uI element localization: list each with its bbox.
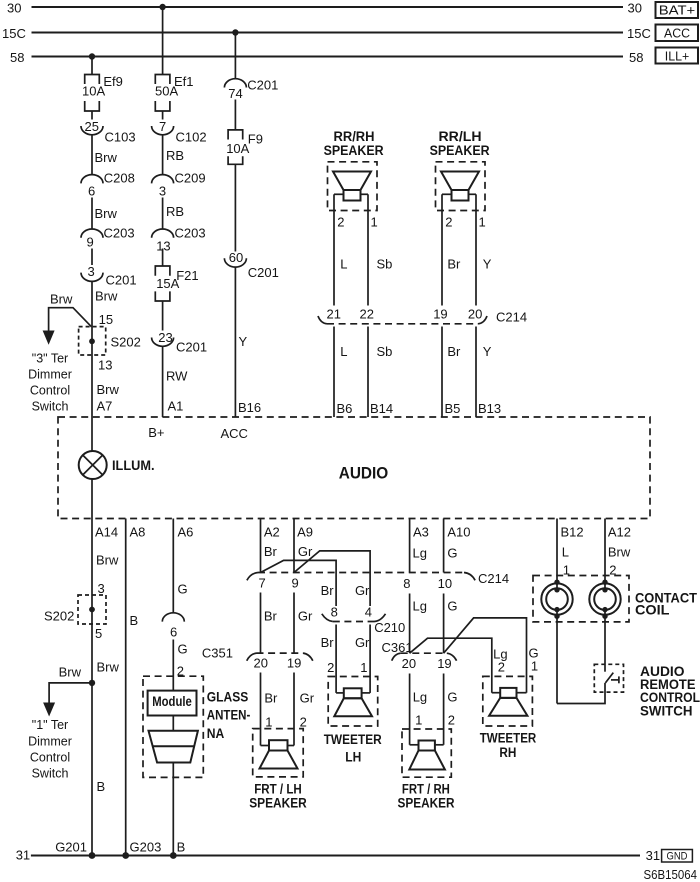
svg-text:A1: A1 (168, 399, 184, 414)
wire C361 pin 20 branch to tweeter RH pin 2 (Lg) (410, 638, 492, 693)
svg-text:Gr: Gr (355, 635, 370, 650)
wire F9 to C201 (234, 164, 236, 251)
terminal box GND (662, 850, 693, 863)
svg-text:SPEAKER: SPEAKER (249, 796, 307, 811)
wire AUDIO A10 to C214 pin 10 (G) (443, 519, 445, 573)
switch contact (611, 679, 619, 681)
svg-text:10A: 10A (82, 84, 105, 99)
wire RR/RH pin 1 to C214 pin 22 (Sb) (367, 194, 369, 305)
svg-text:8: 8 (403, 576, 410, 591)
svg-text:2: 2 (300, 715, 307, 730)
svg-text:1: 1 (415, 713, 422, 728)
wire AUDIO A3 to C214 pin 8 (Lg) (409, 519, 411, 573)
svg-text:4: 4 (365, 605, 372, 620)
svg-text:19: 19 (437, 656, 451, 671)
svg-text:L: L (340, 257, 347, 272)
svg-text:Br: Br (447, 257, 461, 272)
svg-text:RH: RH (499, 745, 516, 760)
svg-text:SWITCH: SWITCH (640, 704, 693, 719)
speaker FRT/RH (402, 729, 451, 777)
svg-text:C214: C214 (478, 571, 509, 586)
wire AUDIO A2 to C214 pin 7 (Br) (260, 519, 262, 573)
svg-text:Lg: Lg (413, 599, 427, 614)
connector C351 (247, 653, 257, 661)
svg-text:Sb: Sb (377, 257, 393, 272)
svg-text:GND: GND (667, 850, 688, 862)
wire C361 pin 19 to FRT/RH pin 2 (G) (443, 674, 445, 745)
svg-text:Brw: Brw (95, 289, 118, 304)
svg-text:G: G (178, 642, 188, 657)
wire C214 pin 7 branch to C210 pin 8 (Br) (261, 560, 337, 606)
connector pin 6 (antenna lead) (162, 613, 184, 622)
svg-text:A10: A10 (447, 525, 470, 540)
wire AUDIO A6 down (G) (172, 519, 174, 614)
arrow to "3" Ter dimmer control switch (43, 331, 55, 345)
svg-text:ACC: ACC (221, 426, 248, 441)
svg-text:10: 10 (438, 576, 452, 591)
svg-text:3: 3 (98, 581, 105, 596)
svg-text:A7: A7 (97, 399, 113, 414)
svg-text:S6B15064: S6B15064 (644, 867, 698, 882)
wire fuse Ef1 to C102 (162, 111, 164, 120)
svg-text:C361: C361 (382, 640, 413, 655)
fuse F21 15A (155, 266, 170, 276)
svg-text:1: 1 (479, 215, 486, 230)
svg-text:G: G (447, 546, 457, 561)
svg-text:8: 8 (331, 605, 338, 620)
svg-text:LH: LH (345, 750, 361, 765)
svg-text:Br: Br (264, 691, 278, 706)
svg-text:Br: Br (321, 583, 335, 598)
svg-text:10A: 10A (226, 141, 249, 156)
svg-text:C203: C203 (104, 226, 135, 241)
svg-text:"1" Ter: "1" Ter (32, 718, 68, 732)
connector C203 pin 13 (152, 229, 174, 238)
terminal box ACC (656, 25, 699, 42)
speaker RR/LH (436, 162, 486, 211)
speaker FRT/LH (253, 729, 304, 777)
svg-text:C201: C201 (247, 78, 278, 93)
wire bus 30 (BAT+) (32, 6, 624, 8)
svg-text:C201: C201 (106, 273, 137, 288)
connector C209 pin 3 (152, 175, 174, 184)
svg-text:SPEAKER: SPEAKER (430, 143, 490, 158)
svg-text:B+: B+ (148, 425, 164, 440)
svg-text:7: 7 (159, 119, 166, 134)
svg-text:2: 2 (337, 215, 344, 230)
svg-text:20: 20 (468, 307, 482, 322)
svg-text:25: 25 (85, 119, 99, 134)
svg-text:C208: C208 (104, 171, 135, 186)
junction G201 on bus 31 (89, 852, 96, 859)
connector C361 (392, 653, 401, 661)
svg-text:B: B (130, 613, 139, 628)
svg-text:31: 31 (16, 848, 30, 863)
wire switch to junction (557, 683, 605, 704)
contact coil ring 1 (541, 583, 572, 614)
svg-text:Brw: Brw (608, 545, 631, 560)
wire 15C to C201 (234, 33, 236, 80)
wire 30 to fuse Ef1 (162, 7, 164, 75)
svg-text:22: 22 (360, 307, 374, 322)
glass antenna box (143, 676, 203, 777)
svg-text:3: 3 (88, 264, 95, 279)
svg-text:B12: B12 (561, 525, 584, 540)
svg-text:Brw: Brw (96, 553, 119, 568)
wire C210 pin 8 to tweeter LH pin 2 (Br) (335, 625, 337, 693)
wire bus 58 (ILL+) (32, 56, 624, 58)
svg-text:TWEETER: TWEETER (324, 732, 382, 747)
svg-text:9: 9 (87, 235, 94, 250)
svg-text:1: 1 (360, 660, 367, 675)
wire C209 to C203 (RB) (162, 198, 164, 230)
svg-text:Brw: Brw (50, 292, 73, 307)
wire C210 pin 4 to tweeter LH pin 1 (Gr) (369, 625, 371, 693)
svg-text:Dimmer: Dimmer (28, 368, 72, 382)
svg-text:Y: Y (483, 257, 492, 272)
svg-text:Lg: Lg (413, 546, 427, 561)
svg-text:A8: A8 (130, 525, 146, 540)
wire C214 pin 19 to AUDIO B5 (Br) (441, 327, 443, 418)
terminal box ILL+ (656, 48, 699, 64)
wire S202 to AUDIO pin A7 (Brw) (91, 327, 93, 417)
svg-text:TWEETER: TWEETER (480, 731, 537, 746)
contact coil ring 2 (589, 583, 620, 614)
svg-text:Brw: Brw (95, 206, 118, 221)
terminal box BAT+ (656, 2, 699, 18)
junction to dimmer branch (89, 680, 95, 686)
svg-text:Switch: Switch (32, 767, 69, 781)
audio remote control switch box (594, 664, 623, 692)
wire C351 pin 20 to FRT/LH pin 1 (Br) (260, 673, 262, 746)
wire C361 pin 20 to FRT/RH pin 1 (Lg) (409, 674, 411, 745)
svg-text:A12: A12 (608, 525, 631, 540)
svg-text:B13: B13 (478, 401, 501, 416)
wire C201 to AUDIO pin A1 (RW) (162, 346, 164, 417)
wire C214 pin 22 to AUDIO B14 (Sb) (367, 327, 369, 418)
svg-text:15A: 15A (156, 276, 179, 291)
speaker TWEETER LH (328, 677, 378, 727)
wire 58 to fuse Ef9 (91, 57, 93, 75)
antenna element (149, 731, 198, 763)
svg-text:58: 58 (629, 50, 643, 65)
svg-text:Y: Y (239, 334, 248, 349)
svg-text:Brw: Brw (97, 382, 120, 397)
svg-text:RR/RH: RR/RH (334, 129, 375, 144)
svg-text:2: 2 (327, 660, 334, 675)
junction on bus 15C (232, 29, 238, 35)
svg-text:Control: Control (30, 751, 70, 765)
svg-text:B14: B14 (370, 401, 393, 416)
svg-text:FRT / RH: FRT / RH (402, 782, 450, 797)
svg-text:Ef9: Ef9 (103, 74, 123, 89)
wire S202 to G201 (Brw, B) (91, 595, 93, 856)
wire C214 pin 8 to C361 pin 20 (Lg) (409, 594, 411, 654)
svg-text:C102: C102 (176, 130, 207, 145)
switch blade (605, 673, 613, 683)
svg-text:RB: RB (166, 148, 184, 163)
svg-text:RW: RW (166, 369, 188, 384)
svg-text:15C: 15C (627, 26, 651, 41)
svg-text:30: 30 (628, 1, 642, 16)
svg-text:7: 7 (259, 576, 266, 591)
wire C208 to C203 (Brw) (91, 198, 93, 230)
junction G203 on bus 31 (122, 852, 129, 859)
svg-text:5: 5 (95, 626, 102, 641)
svg-text:FRT / LH: FRT / LH (254, 781, 302, 796)
svg-text:Lg: Lg (413, 690, 427, 705)
speaker TWEETER RH (483, 676, 533, 726)
svg-text:Control: Control (30, 384, 70, 398)
module box (148, 691, 197, 716)
wire AUDIO A9 to C214 pin 9 (Gr) (293, 519, 295, 573)
svg-text:3: 3 (159, 184, 166, 199)
svg-text:C209: C209 (175, 171, 206, 186)
svg-text:G: G (447, 599, 457, 614)
svg-text:Gr: Gr (355, 583, 370, 598)
svg-text:RR/LH: RR/LH (439, 129, 482, 144)
svg-text:F21: F21 (176, 268, 198, 283)
wire fuse Ef9 to C103 (91, 111, 93, 120)
wire to glass antenna module (G) (172, 640, 174, 691)
svg-text:BAT+: BAT+ (659, 3, 696, 18)
svg-text:Gr: Gr (298, 544, 313, 559)
contact coil box (533, 576, 629, 622)
svg-text:6: 6 (88, 184, 95, 199)
connector C201 pin 74 (224, 79, 246, 88)
svg-text:19: 19 (433, 307, 447, 322)
svg-text:B: B (97, 779, 106, 794)
svg-text:Brw: Brw (95, 150, 118, 165)
svg-text:C214: C214 (496, 310, 527, 325)
svg-text:S202: S202 (111, 335, 141, 350)
wire C214 pin 9 to C351 pin 19 (Gr) (293, 593, 295, 654)
svg-text:RB: RB (166, 204, 184, 219)
svg-text:B5: B5 (445, 401, 461, 416)
lamp ILLUM. (91, 417, 93, 451)
wire contact coil 1 down (556, 615, 558, 704)
wire AUDIO A12 to contact coil (Brw) (604, 519, 606, 584)
svg-text:Brw: Brw (59, 665, 82, 680)
svg-text:Switch: Switch (32, 400, 69, 414)
svg-text:74: 74 (228, 86, 242, 101)
svg-text:60: 60 (229, 250, 243, 265)
svg-text:2: 2 (498, 660, 505, 675)
svg-text:G: G (178, 582, 188, 597)
svg-text:S202: S202 (44, 609, 74, 624)
svg-text:SPEAKER: SPEAKER (324, 143, 384, 158)
svg-text:C201: C201 (176, 340, 207, 355)
svg-text:Gr: Gr (298, 609, 313, 624)
svg-text:Sb: Sb (377, 344, 393, 359)
svg-text:Dimmer: Dimmer (28, 735, 72, 749)
svg-text:1: 1 (371, 215, 378, 230)
svg-text:31: 31 (646, 848, 660, 863)
wire C361 pin 19 branch to tweeter RH pin 1 (G) (444, 618, 527, 693)
svg-text:L: L (562, 545, 569, 560)
wire C214 pin 21 to AUDIO B6 (L) (333, 327, 335, 418)
wire C214 pin 7 to C351 pin 20 (Br) (260, 593, 262, 654)
svg-text:C201: C201 (248, 265, 279, 280)
fuse Ef1 50A (155, 75, 170, 85)
svg-text:G203: G203 (130, 840, 162, 855)
wire RR/RH pin 2 to C214 pin 21 (L) (333, 194, 335, 305)
svg-text:9: 9 (292, 576, 299, 591)
svg-text:L: L (340, 344, 347, 359)
svg-text:A2: A2 (264, 525, 280, 540)
junction on bus 58 (89, 53, 95, 59)
svg-text:Gr: Gr (300, 691, 315, 706)
splice S202 (lower) (78, 595, 106, 624)
junction antenna ground on bus 31 (170, 852, 177, 859)
svg-text:A3: A3 (413, 525, 429, 540)
svg-text:20: 20 (402, 656, 416, 671)
svg-text:13: 13 (98, 358, 112, 373)
svg-text:C203: C203 (175, 226, 206, 241)
svg-text:B6: B6 (337, 401, 353, 416)
svg-text:C103: C103 (105, 130, 136, 145)
wire C203 to C201 (91, 249, 93, 266)
svg-text:6: 6 (170, 625, 177, 640)
svg-text:A6: A6 (178, 525, 194, 540)
connector C203 pin 9 (81, 229, 103, 238)
wire C351 pin 19 to FRT/LH pin 2 (Gr) (293, 673, 295, 746)
svg-text:Module: Module (152, 694, 192, 709)
svg-text:F9: F9 (248, 131, 263, 146)
wire C203 to fuse F21 (162, 249, 164, 267)
svg-text:20: 20 (254, 656, 268, 671)
wire C102 to C209 (RB) (162, 135, 164, 175)
connector C208 pin 6 (81, 175, 103, 184)
svg-text:Br: Br (264, 609, 278, 624)
svg-text:ACC: ACC (664, 25, 690, 40)
svg-text:A9: A9 (297, 525, 313, 540)
svg-text:AUDIO: AUDIO (339, 464, 389, 483)
svg-text:B16: B16 (238, 400, 261, 415)
wire C214 pin 20 to AUDIO B13 (Y) (475, 327, 477, 418)
svg-text:1: 1 (265, 715, 272, 730)
wire RR/LH pin 2 to C214 pin 19 (Br) (441, 194, 443, 305)
wire bus 15C (ACC) (32, 32, 624, 34)
wire C201 to S202 (Brw) (91, 281, 93, 326)
svg-text:GLASS: GLASS (207, 689, 249, 704)
svg-text:30: 30 (7, 1, 21, 16)
svg-text:Br: Br (264, 544, 278, 559)
svg-text:Brw: Brw (97, 660, 120, 675)
wire AUDIO A8 to G203 (B) (125, 519, 127, 856)
svg-text:ILLUM.: ILLUM. (112, 458, 155, 473)
svg-text:2: 2 (448, 713, 455, 728)
svg-text:2: 2 (445, 215, 452, 230)
arrow to "1" Ter dimmer control switch (43, 703, 55, 717)
wire C103 to C208 (Brw) (91, 135, 93, 175)
svg-text:21: 21 (327, 307, 341, 322)
svg-text:SPEAKER: SPEAKER (398, 796, 455, 811)
svg-text:COIL: COIL (635, 603, 670, 618)
svg-text:"3" Ter: "3" Ter (32, 352, 68, 366)
wire C214 pin 9 branch to C210 pin 4 (Gr) (294, 551, 370, 606)
connector C214 (lower row) (247, 573, 258, 581)
fuse F9 10A (228, 130, 243, 140)
svg-text:ANTEN-: ANTEN- (207, 708, 251, 723)
wire antenna to bus 31 (B) (172, 763, 174, 856)
svg-text:15: 15 (99, 312, 113, 327)
svg-text:G: G (447, 690, 457, 705)
wire C201 to AUDIO pin B16 (Y) (234, 267, 236, 417)
wire AUDIO A14 down (Brw) (91, 519, 93, 596)
svg-text:G201: G201 (55, 840, 87, 855)
fuse Ef9 10A (85, 75, 100, 85)
svg-text:C210: C210 (374, 620, 405, 635)
svg-text:Br: Br (447, 344, 461, 359)
svg-text:Y: Y (483, 344, 492, 359)
wire F21 to C201 (162, 301, 164, 331)
svg-text:1: 1 (531, 659, 538, 674)
junction on bus 30 (159, 4, 165, 10)
wire RR/LH pin 1 to C214 pin 20 (Y) (475, 194, 477, 305)
svg-text:B: B (177, 840, 186, 855)
svg-text:58: 58 (10, 50, 24, 65)
svg-text:Br: Br (321, 635, 335, 650)
svg-text:NA: NA (207, 726, 225, 741)
svg-text:15C: 15C (2, 26, 26, 41)
wire AUDIO B12 to contact coil (L) (556, 519, 558, 584)
wire contact coil 2 to remote switch (604, 615, 606, 672)
svg-text:A14: A14 (95, 525, 118, 540)
svg-text:C351: C351 (202, 646, 233, 661)
wire C201 to fuse F9 (234, 100, 236, 130)
wire module to antenna (172, 716, 174, 731)
speaker RR/RH (328, 162, 378, 211)
svg-text:19: 19 (287, 656, 301, 671)
audio unit box (58, 417, 650, 519)
svg-text:50A: 50A (155, 84, 178, 99)
wire C214 pin 10 to C361 pin 19 (G) (443, 594, 445, 654)
svg-text:ILL+: ILL+ (665, 48, 690, 63)
